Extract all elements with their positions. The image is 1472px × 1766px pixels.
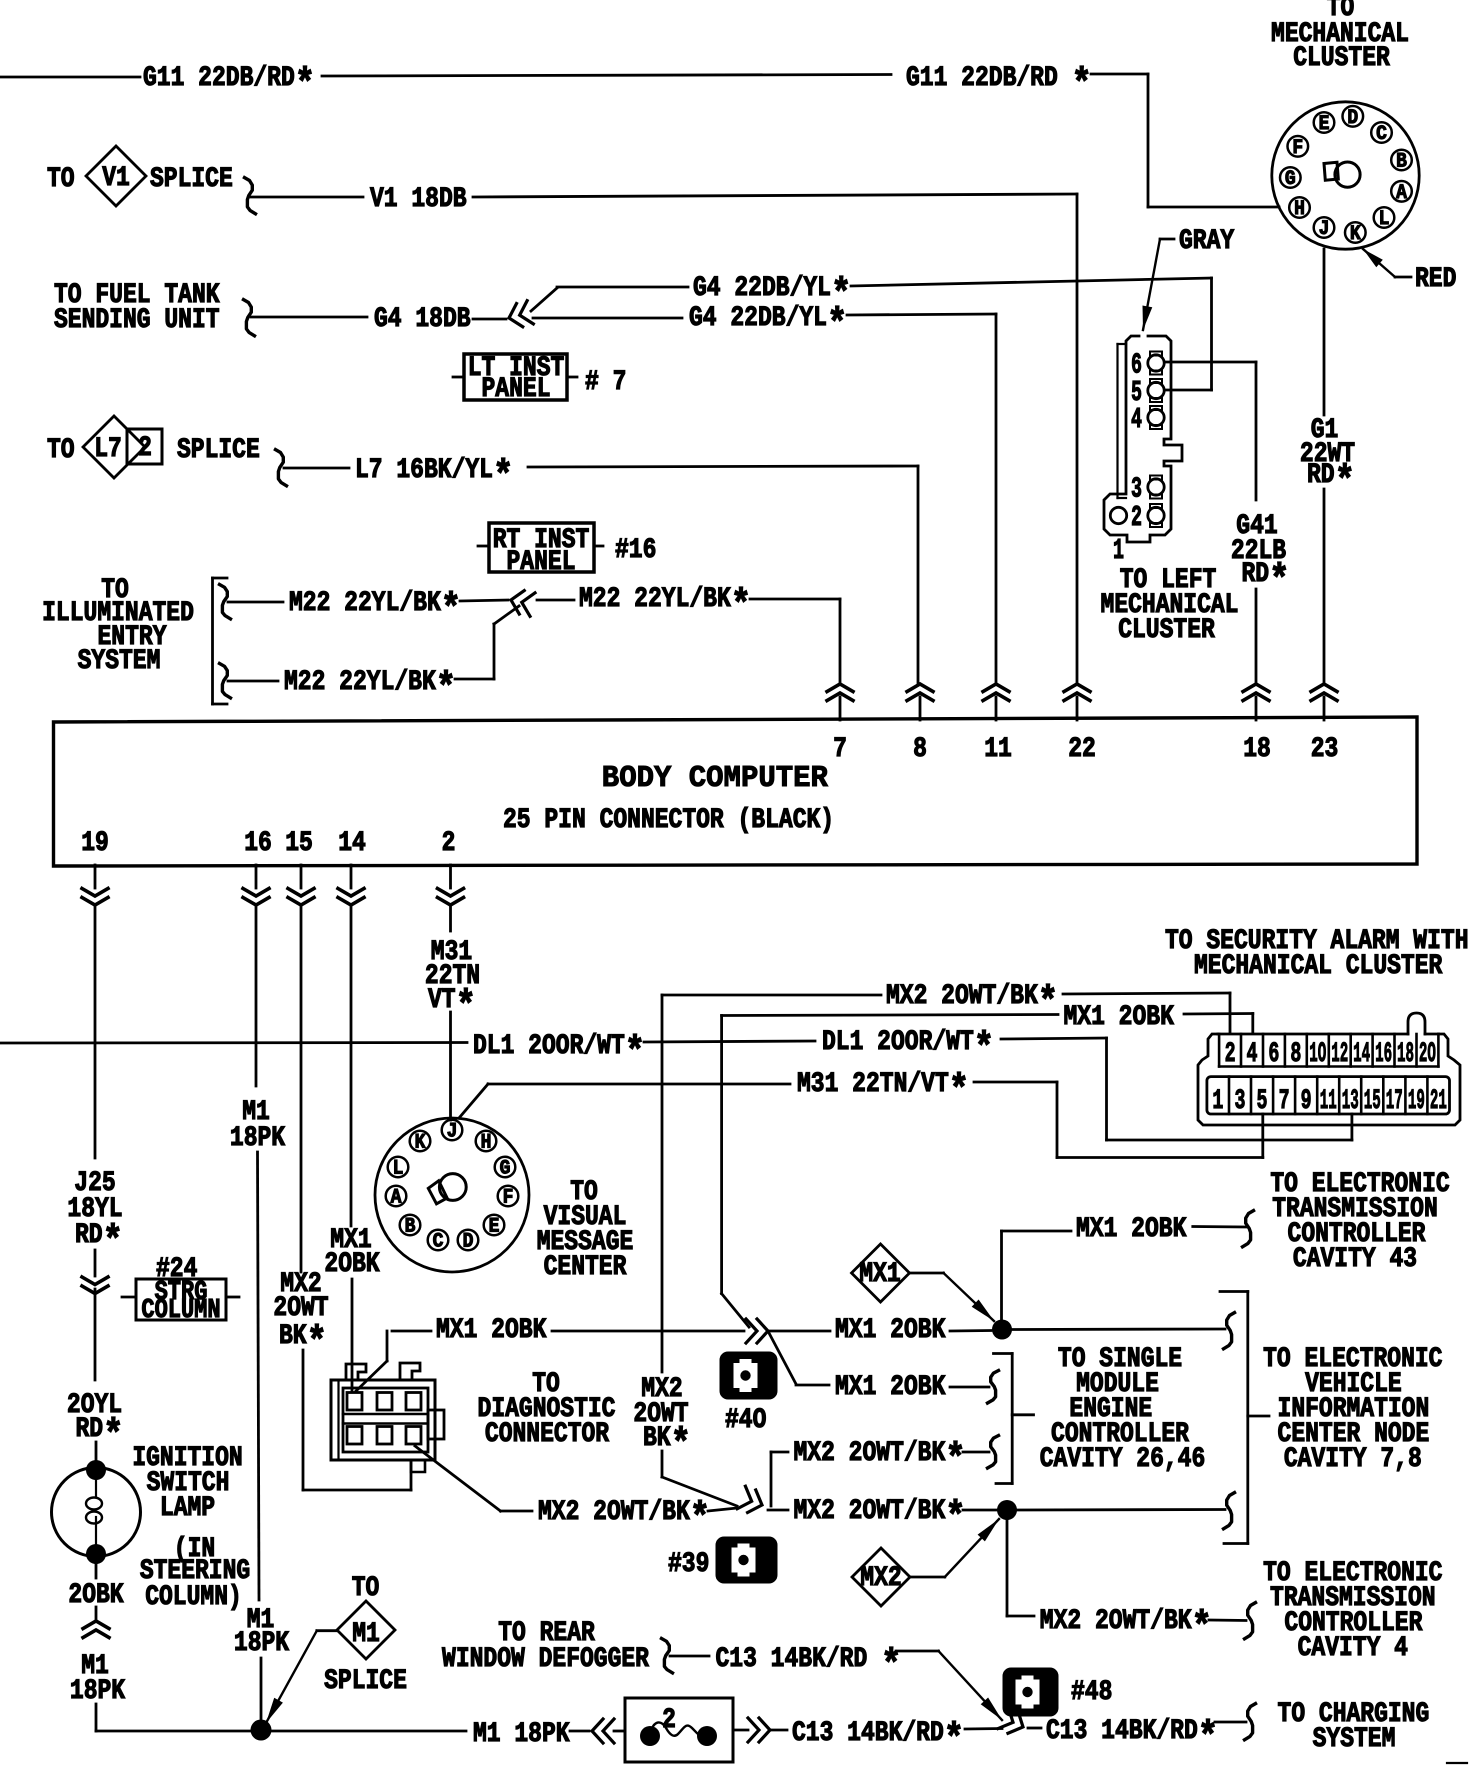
svg-text:WINDOW DEFOGGER: WINDOW DEFOGGER — [442, 1643, 650, 1675]
svg-text:A: A — [1396, 181, 1407, 204]
svg-text:CLUSTER: CLUSTER — [1293, 42, 1390, 74]
svg-text:14: 14 — [1353, 1038, 1370, 1070]
svg-text:8: 8 — [913, 733, 927, 765]
svg-text:H: H — [481, 1131, 492, 1154]
svg-text:C13 14BK/RD *: C13 14BK/RD * — [716, 1643, 902, 1689]
svg-text:MX1 2OBK: MX1 2OBK — [1076, 1213, 1187, 1245]
svg-text:18PK: 18PK — [70, 1675, 126, 1707]
svg-text:7: 7 — [833, 733, 847, 765]
svg-text:#39: #39 — [668, 1548, 709, 1580]
svg-text:14: 14 — [338, 827, 366, 859]
svg-text:E: E — [1319, 112, 1330, 135]
svg-text:SPLICE: SPLICE — [150, 163, 233, 195]
svg-text:COLUMN: COLUMN — [141, 1296, 220, 1325]
svg-text:# 7: # 7 — [585, 366, 626, 398]
svg-text:MECHANICAL CLUSTER: MECHANICAL CLUSTER — [1194, 950, 1443, 982]
svg-text:G4 22DB/YL*: G4 22DB/YL* — [689, 302, 847, 348]
svg-text:9: 9 — [1301, 1085, 1312, 1117]
svg-text:L: L — [393, 1157, 404, 1180]
svg-text:A: A — [391, 1186, 402, 1209]
svg-text:M1 18PK: M1 18PK — [473, 1718, 570, 1750]
svg-text:B: B — [405, 1215, 416, 1238]
svg-text:M22 22YL/BK*: M22 22YL/BK* — [579, 583, 751, 629]
svg-text:3: 3 — [1235, 1085, 1246, 1117]
svg-text:#48: #48 — [1071, 1676, 1112, 1708]
svg-text:J: J — [1319, 217, 1330, 240]
svg-text:MX1 2OBK: MX1 2OBK — [436, 1314, 547, 1346]
svg-text:2: 2 — [138, 432, 152, 464]
svg-text:19: 19 — [81, 827, 109, 859]
svg-text:M1: M1 — [352, 1618, 380, 1650]
svg-text:8: 8 — [1290, 1038, 1301, 1070]
svg-text:VT*: VT* — [428, 984, 476, 1030]
svg-text:21: 21 — [1430, 1085, 1447, 1117]
svg-text:H: H — [1294, 197, 1305, 220]
svg-text:BODY COMPUTER: BODY COMPUTER — [602, 760, 828, 795]
svg-text:COLUMN): COLUMN) — [145, 1581, 242, 1613]
svg-text:G4 18DB: G4 18DB — [374, 303, 471, 335]
svg-text:7: 7 — [1279, 1085, 1290, 1117]
svg-text:2OWT: 2OWT — [273, 1292, 328, 1324]
svg-text:CAVITY 4: CAVITY 4 — [1298, 1632, 1408, 1664]
svg-text:DL1 2OOR/WT*: DL1 2OOR/WT* — [473, 1030, 645, 1076]
svg-text:SENDING UNIT: SENDING UNIT — [54, 304, 220, 336]
svg-text:L7 16BK/YL*: L7 16BK/YL* — [355, 454, 513, 500]
svg-text:2OBK: 2OBK — [324, 1248, 380, 1280]
svg-text:B: B — [1396, 150, 1407, 173]
svg-text:C13 14BK/RD*: C13 14BK/RD* — [1046, 1715, 1218, 1761]
svg-text:22: 22 — [1068, 733, 1096, 765]
svg-text:K: K — [1350, 222, 1361, 245]
svg-text:11: 11 — [1320, 1085, 1337, 1117]
svg-text:L: L — [1379, 207, 1390, 230]
svg-text:15: 15 — [285, 827, 313, 859]
svg-text:#4O: #4O — [725, 1404, 766, 1436]
svg-text:D: D — [463, 1230, 474, 1253]
svg-text:RD*: RD* — [1241, 558, 1289, 604]
svg-text:K: K — [415, 1131, 426, 1154]
svg-text:18: 18 — [1243, 733, 1271, 765]
svg-text:TO: TO — [352, 1572, 380, 1604]
svg-text:RD*: RD* — [75, 1413, 123, 1459]
svg-text:2: 2 — [1225, 1038, 1236, 1070]
svg-text:TO: TO — [47, 163, 75, 195]
svg-text:C: C — [433, 1230, 444, 1253]
svg-text:J: J — [447, 1120, 458, 1143]
svg-text:M31 22TN/VT*: M31 22TN/VT* — [797, 1068, 969, 1114]
svg-text:5: 5 — [1257, 1085, 1268, 1117]
svg-text:2O: 2O — [1419, 1038, 1436, 1070]
svg-text:18: 18 — [1397, 1038, 1414, 1070]
svg-text:MX1 2OBK: MX1 2OBK — [1064, 1001, 1175, 1033]
svg-text:F: F — [1292, 136, 1303, 159]
svg-text:1O: 1O — [1309, 1038, 1326, 1070]
svg-text:GRAY: GRAY — [1179, 225, 1235, 257]
svg-text:C: C — [1376, 122, 1387, 145]
svg-text:CAVITY 43: CAVITY 43 — [1293, 1243, 1417, 1275]
svg-text:1: 1 — [1212, 1085, 1223, 1117]
svg-text:PANEL: PANEL — [482, 373, 551, 405]
svg-text:SYSTEM: SYSTEM — [78, 645, 161, 677]
svg-text:2: 2 — [442, 827, 456, 859]
svg-text:13: 13 — [1342, 1085, 1359, 1117]
svg-text:M22 22YL/BK*: M22 22YL/BK* — [284, 666, 456, 712]
svg-text:23: 23 — [1311, 733, 1339, 765]
svg-text:15: 15 — [1364, 1085, 1381, 1117]
svg-text:V1: V1 — [102, 162, 130, 194]
svg-text:BK*: BK* — [643, 1422, 691, 1468]
svg-text:16: 16 — [1375, 1038, 1392, 1070]
svg-text:SPLICE: SPLICE — [177, 434, 260, 466]
svg-text:G: G — [1285, 167, 1296, 190]
svg-text:G11 22DB/RD*: G11 22DB/RD* — [143, 62, 315, 108]
svg-text:CLUSTER: CLUSTER — [1118, 614, 1215, 646]
svg-text:MX2 2OWT/BK*: MX2 2OWT/BK* — [1040, 1605, 1212, 1651]
svg-text:F: F — [503, 1186, 514, 1209]
svg-text:16: 16 — [244, 827, 272, 859]
svg-text:12: 12 — [1331, 1038, 1348, 1070]
svg-text:V1 18DB: V1 18DB — [370, 183, 467, 215]
svg-text:19: 19 — [1408, 1085, 1425, 1117]
svg-text:MX2: MX2 — [860, 1562, 901, 1594]
svg-text:17: 17 — [1386, 1085, 1403, 1117]
svg-text:D: D — [1347, 106, 1358, 129]
svg-text:25 PIN CONNECTOR (BLACK): 25 PIN CONNECTOR (BLACK) — [503, 804, 834, 836]
svg-text:C13 14BK/RD*: C13 14BK/RD* — [792, 1717, 964, 1763]
svg-text:DL1 2OOR/WT*: DL1 2OOR/WT* — [822, 1026, 994, 1072]
svg-text:SYSTEM: SYSTEM — [1313, 1723, 1396, 1755]
svg-text:18PK: 18PK — [230, 1122, 286, 1154]
svg-text:RED: RED — [1415, 263, 1456, 295]
svg-text:4: 4 — [1247, 1038, 1258, 1070]
svg-text:MX1 2OBK: MX1 2OBK — [835, 1371, 946, 1403]
svg-text:CENTER: CENTER — [544, 1251, 627, 1283]
svg-text:4: 4 — [1131, 403, 1142, 436]
svg-text:RD*: RD* — [1307, 459, 1355, 505]
svg-text:SPLICE: SPLICE — [324, 1665, 407, 1697]
svg-text:CONNECTOR: CONNECTOR — [485, 1418, 610, 1450]
svg-text:CAVITY 7,8: CAVITY 7,8 — [1284, 1443, 1422, 1475]
svg-text:18PK: 18PK — [234, 1627, 290, 1659]
svg-text:L7: L7 — [94, 433, 122, 465]
svg-text:M22 22YL/BK*: M22 22YL/BK* — [289, 587, 461, 633]
svg-text:MX2 2OWT/BK*: MX2 2OWT/BK* — [794, 1495, 966, 1541]
svg-text:RD*: RD* — [75, 1219, 123, 1265]
svg-text:LAMP: LAMP — [160, 1492, 215, 1524]
svg-text:1: 1 — [1113, 534, 1124, 567]
svg-text:MX2 2OWT/BK*: MX2 2OWT/BK* — [538, 1496, 710, 1542]
svg-text:#16: #16 — [615, 534, 656, 566]
svg-text:G: G — [500, 1157, 511, 1180]
svg-text:6: 6 — [1268, 1038, 1279, 1070]
svg-text:CAVITY 26,46: CAVITY 26,46 — [1040, 1443, 1206, 1475]
svg-text:PANEL: PANEL — [507, 546, 576, 578]
svg-text:11: 11 — [984, 733, 1012, 765]
svg-text:MX2 2OWT/BK*: MX2 2OWT/BK* — [886, 980, 1058, 1026]
svg-text:G11 22DB/RD *: G11 22DB/RD * — [906, 62, 1092, 108]
svg-text:MX2 2OWT/BK*: MX2 2OWT/BK* — [794, 1437, 966, 1483]
svg-text:TO: TO — [47, 434, 75, 466]
svg-text:2: 2 — [1131, 501, 1142, 534]
svg-text:MX1: MX1 — [859, 1258, 900, 1290]
svg-text:MX1 2OBK: MX1 2OBK — [835, 1314, 946, 1346]
svg-text:E: E — [489, 1215, 500, 1238]
